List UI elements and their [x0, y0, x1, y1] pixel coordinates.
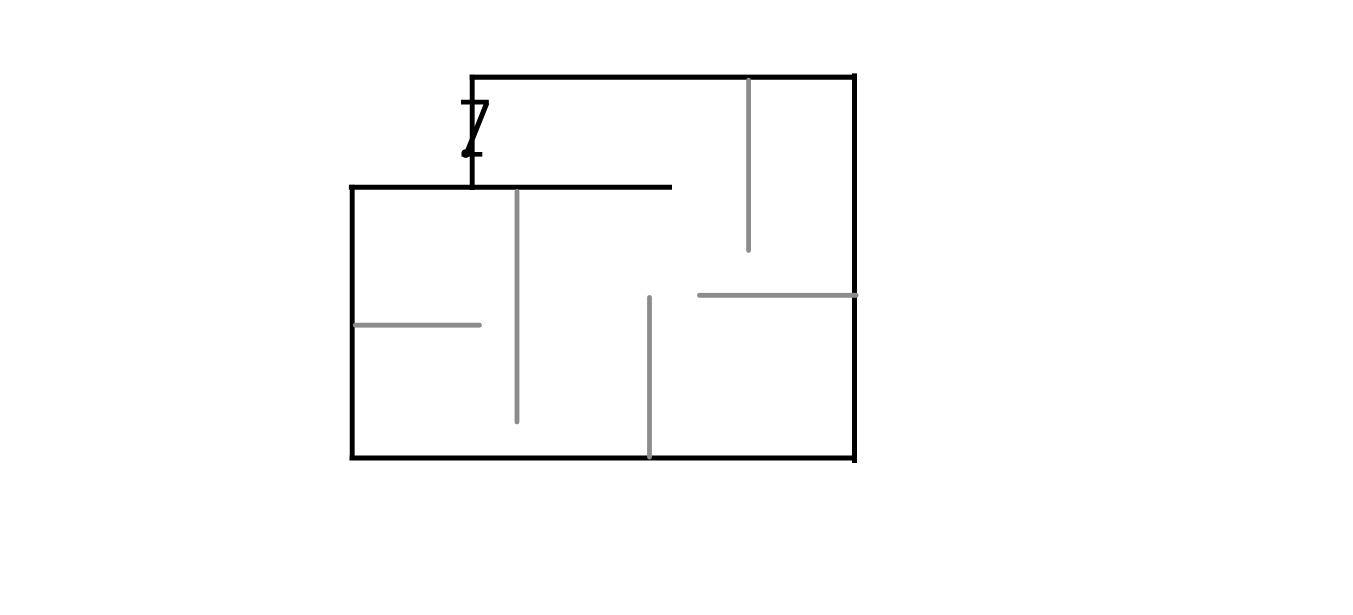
gray line vertical upper right [746, 80, 751, 250]
numeral 7 mark diagonal [467, 103, 487, 152]
wall right (black) [852, 73, 857, 463]
wall connector vertical at x=472 (black) [470, 75, 475, 190]
numeral 7 mark pen blob [461, 149, 470, 158]
numeral 7 mark bottom crossbar [462, 152, 483, 157]
gray line vertical lower middle [647, 298, 652, 458]
wall middle (black) [349, 185, 672, 190]
numeral 7 mark top bar [461, 100, 489, 105]
wall top (black) [470, 75, 857, 80]
wall bottom (black) [350, 456, 858, 461]
gray line vertical center [515, 191, 520, 422]
wall left (black) [350, 185, 355, 461]
gray line horizontal right [699, 293, 856, 298]
gray line horizontal left [355, 323, 479, 328]
